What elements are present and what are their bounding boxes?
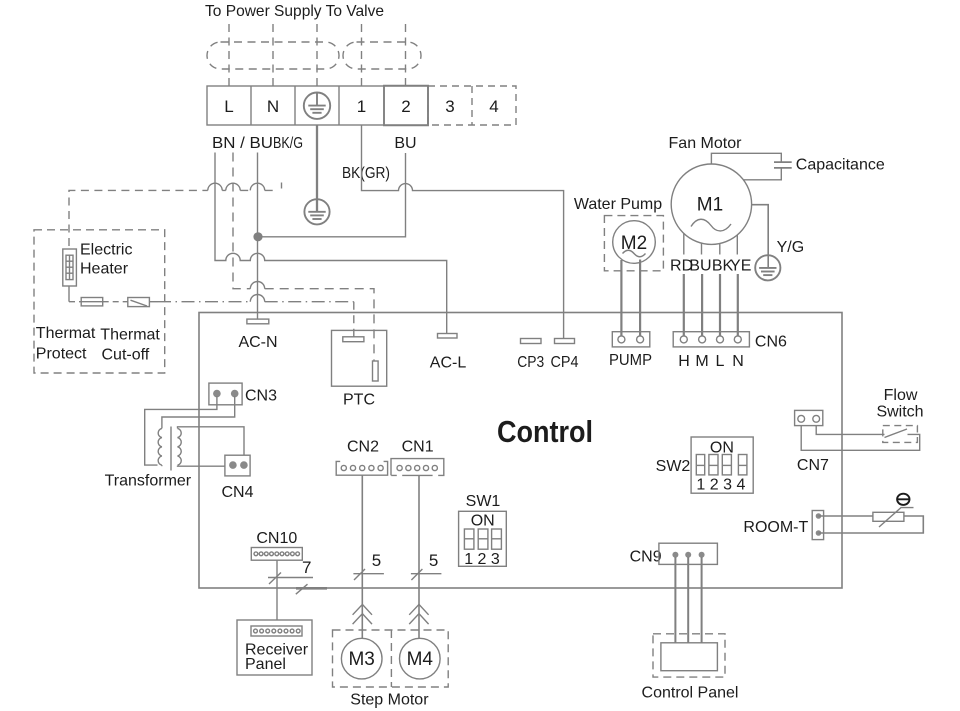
- wire earth terminal to ground: [316, 125, 318, 212]
- heater dashed wire up and across with hops: [69, 183, 276, 246]
- connector CN7: [795, 410, 823, 425]
- connector CN1: [391, 459, 444, 476]
- step motor M4: [400, 638, 441, 679]
- cable mark (power supply): [207, 42, 339, 69]
- labels H M L N: [678, 353, 744, 370]
- wire CN2 to step motor M3: [361, 476, 363, 639]
- M1 bottom stubs: [684, 233, 738, 254]
- svg-text:Capacitance: Capacitance: [796, 157, 885, 174]
- wires M1 to CN6: [684, 274, 738, 336]
- connector CN9: [659, 543, 718, 564]
- label Flow Switch: [876, 387, 923, 420]
- label Thermat Cut-off: [100, 327, 160, 364]
- PTC left terminal bar: [343, 337, 364, 342]
- wire CN10 to receiver panel: [276, 560, 278, 620]
- labels SW1 ON 123: [464, 493, 500, 568]
- wire CN7 to flow switch loop: [801, 426, 920, 451]
- wire terminal 1 BK(GR) to CP4 with hop: [362, 125, 564, 339]
- wire capacitor back to motor: [743, 168, 781, 180]
- protective earth symbol in terminal block: [304, 93, 330, 119]
- electric heater element: [63, 249, 77, 286]
- connector PUMP: [612, 332, 650, 347]
- svg-text:Fan Motor: Fan Motor: [669, 135, 743, 152]
- cut-off lead solid: [149, 301, 158, 303]
- svg-text:PUMP: PUMP: [609, 352, 652, 369]
- svg-text:M4: M4: [407, 649, 434, 670]
- svg-text:M3: M3: [348, 649, 374, 670]
- wire M2 right to PUMP: [639, 260, 641, 336]
- svg-text:Control Panel: Control Panel: [642, 685, 739, 702]
- svg-text:4: 4: [489, 97, 498, 116]
- connector CN3: [209, 383, 242, 405]
- svg-text:CN2: CN2: [347, 438, 379, 455]
- PTC right pin: [373, 361, 379, 381]
- svg-text:AC-L: AC-L: [430, 355, 467, 372]
- control panel dashed box: [653, 634, 725, 677]
- svg-text:To Power Supply To Valve: To Power Supply To Valve: [205, 3, 384, 20]
- terminal CP3: [521, 339, 542, 344]
- svg-text:Switch: Switch: [876, 403, 923, 420]
- svg-text:Heater: Heater: [80, 261, 129, 278]
- connector ROOM-T: [812, 511, 823, 540]
- svg-text:CN7: CN7: [797, 457, 829, 474]
- wire secondary top to CN4 pin2: [178, 427, 245, 455]
- receiver panel box: [237, 620, 312, 675]
- thermistor room sensor: [873, 508, 914, 527]
- wire BN/BU live to AC-L with hops: [215, 153, 447, 334]
- terminal AC-L: [438, 334, 458, 339]
- connector CN6: [673, 332, 749, 347]
- wire M1 to YG ground: [751, 205, 768, 267]
- dashed drop to PTC left terminal: [353, 302, 355, 337]
- svg-text:2: 2: [401, 97, 410, 116]
- svg-text:Y/G: Y/G: [777, 239, 805, 256]
- wires CN9 to control panel: [675, 557, 701, 643]
- bus marker 5-wire M4: [411, 569, 442, 580]
- svg-text:3: 3: [445, 97, 454, 116]
- wire valve 1 (dashed to terminal 1): [361, 24, 363, 86]
- bus marker 5-wire M3: [353, 569, 384, 580]
- water pump dashed box: [604, 216, 663, 271]
- svg-text:CP4: CP4: [551, 354, 579, 371]
- terminal CP4: [555, 339, 575, 344]
- svg-text:BK/G: BK/G: [273, 135, 303, 152]
- flow switch blade: [885, 429, 908, 438]
- svg-text:CN4: CN4: [221, 484, 253, 501]
- thermal cut-off switch: [128, 298, 150, 307]
- svg-text:1 2 3 4: 1 2 3 4: [696, 477, 745, 494]
- ground symbol (mains earth): [304, 199, 329, 224]
- wire ROOM-T top to thermistor: [819, 515, 873, 517]
- svg-text:SW1: SW1: [466, 493, 501, 510]
- wire junction to terminal 2 (BU): [258, 153, 406, 237]
- svg-text:Control: Control: [497, 414, 593, 449]
- DIP switch SW1: [459, 511, 507, 566]
- label Thermat Protect: [36, 325, 96, 362]
- svg-text:Electric: Electric: [80, 242, 132, 259]
- wire M2 left to PUMP: [620, 260, 622, 336]
- theta symbol: [897, 494, 909, 505]
- svg-text:N: N: [732, 353, 744, 370]
- dash-dot wire cut-off to PTC with hop: [158, 295, 354, 302]
- svg-text:Thermat: Thermat: [36, 325, 96, 342]
- svg-text:Panel: Panel: [245, 656, 286, 673]
- labels RD BU BK YE: [670, 258, 751, 275]
- wire CN3 pin2 to transformer primary top: [162, 396, 235, 425]
- svg-text:Cut-off: Cut-off: [102, 347, 150, 364]
- terminal labels: [224, 97, 498, 116]
- svg-text:ON: ON: [471, 513, 495, 530]
- wire N dashed to PTC pin with hop: [233, 153, 374, 362]
- wire PE (dashed to earth terminal): [316, 24, 318, 86]
- connector CN4: [225, 455, 250, 476]
- svg-text:BU: BU: [394, 135, 416, 152]
- labels SW2 ON 1234: [656, 439, 746, 493]
- svg-text:CN6: CN6: [755, 334, 787, 351]
- end tick of heater dashed wire: [281, 183, 283, 189]
- dashed lead heater to fuse: [69, 301, 81, 303]
- transformer T1: [158, 425, 181, 471]
- svg-text:N: N: [267, 97, 279, 116]
- wire CN1 to step motor M4: [418, 476, 420, 638]
- svg-text:PTC: PTC: [343, 392, 375, 409]
- chevrons on M4 wire: [409, 604, 428, 624]
- capacitor (capacitance): [774, 162, 792, 168]
- svg-text:5: 5: [429, 551, 438, 570]
- dashed lead fuse to cut-off: [103, 301, 128, 303]
- receiver panel connector: [251, 626, 302, 636]
- wire BK/G to AC-N: [257, 153, 259, 320]
- svg-text:BU: BU: [689, 258, 711, 275]
- junction dot on BK/G wire: [253, 232, 262, 241]
- control panel box: [661, 643, 718, 671]
- wire CN3 pin1 to transformer primary bottom: [145, 396, 217, 465]
- svg-text:1 2 3: 1 2 3: [464, 551, 500, 568]
- bus marker 7-wire: [268, 573, 327, 595]
- svg-text:YE: YE: [730, 258, 751, 275]
- wire secondary bottom to CN4 pin1: [178, 465, 225, 468]
- flow switch dashed box: [883, 426, 918, 443]
- connector CN10: [251, 548, 302, 561]
- svg-text:BN / BU: BN / BU: [212, 135, 273, 152]
- svg-text:CP3: CP3: [517, 354, 544, 371]
- connector CN2: [336, 461, 387, 475]
- terminal block solid cells L N PE 1 2: [207, 86, 428, 126]
- svg-text:H: H: [678, 353, 690, 370]
- control board outline: [199, 313, 842, 589]
- wire N (dashed to terminal N): [272, 24, 274, 86]
- wire valve 2 (dashed to terminal 2): [405, 24, 407, 86]
- svg-text:1: 1: [357, 97, 366, 116]
- svg-text:M: M: [695, 353, 708, 370]
- svg-text:CN3: CN3: [245, 388, 277, 405]
- heater assembly dashed box: [34, 230, 165, 373]
- DIP switch SW2: [691, 437, 753, 493]
- svg-text:Water Pump: Water Pump: [574, 196, 662, 213]
- terminal AC-N: [247, 319, 269, 324]
- svg-text:5: 5: [372, 551, 381, 570]
- ground symbol Y/G: [755, 255, 780, 280]
- svg-text:ROOM-T: ROOM-T: [743, 519, 808, 536]
- terminal block dashed cells 3 4: [428, 86, 516, 125]
- fan motor M1: [671, 164, 751, 244]
- chevrons on M3 wire: [353, 604, 372, 624]
- svg-text:SW2: SW2: [656, 458, 691, 475]
- wire L (dashed to terminal L): [228, 24, 230, 86]
- wire M1 top to capacitor: [711, 153, 781, 164]
- svg-text:CN1: CN1: [402, 438, 434, 455]
- svg-text:CN9: CN9: [630, 549, 662, 566]
- cable mark (valve): [343, 42, 421, 69]
- svg-text:Step Motor: Step Motor: [350, 692, 429, 709]
- svg-text:ON: ON: [710, 439, 734, 456]
- water pump motor M2: [613, 221, 656, 264]
- svg-text:Flow: Flow: [884, 387, 918, 404]
- svg-text:L: L: [224, 97, 233, 116]
- svg-text:L: L: [716, 353, 725, 370]
- PTC box: [332, 330, 387, 386]
- svg-text:7: 7: [302, 558, 311, 577]
- svg-text:M1: M1: [697, 195, 723, 216]
- wire thermistor loop back to ROOM-T: [819, 516, 924, 533]
- label Receiver Panel: [245, 642, 309, 674]
- svg-text:CN10: CN10: [256, 530, 297, 547]
- thermal protector (fuse): [81, 298, 103, 306]
- svg-text:Protect: Protect: [36, 346, 87, 363]
- label Electric Heater: [80, 242, 132, 278]
- svg-text:BK(GR): BK(GR): [342, 165, 390, 182]
- step motor M3: [341, 638, 382, 679]
- svg-text:AC-N: AC-N: [238, 334, 277, 351]
- heater bottom lead: [68, 286, 70, 302]
- svg-text:Thermat: Thermat: [100, 327, 160, 344]
- svg-text:Transformer: Transformer: [105, 473, 192, 490]
- step motor dashed boxes: [333, 630, 449, 687]
